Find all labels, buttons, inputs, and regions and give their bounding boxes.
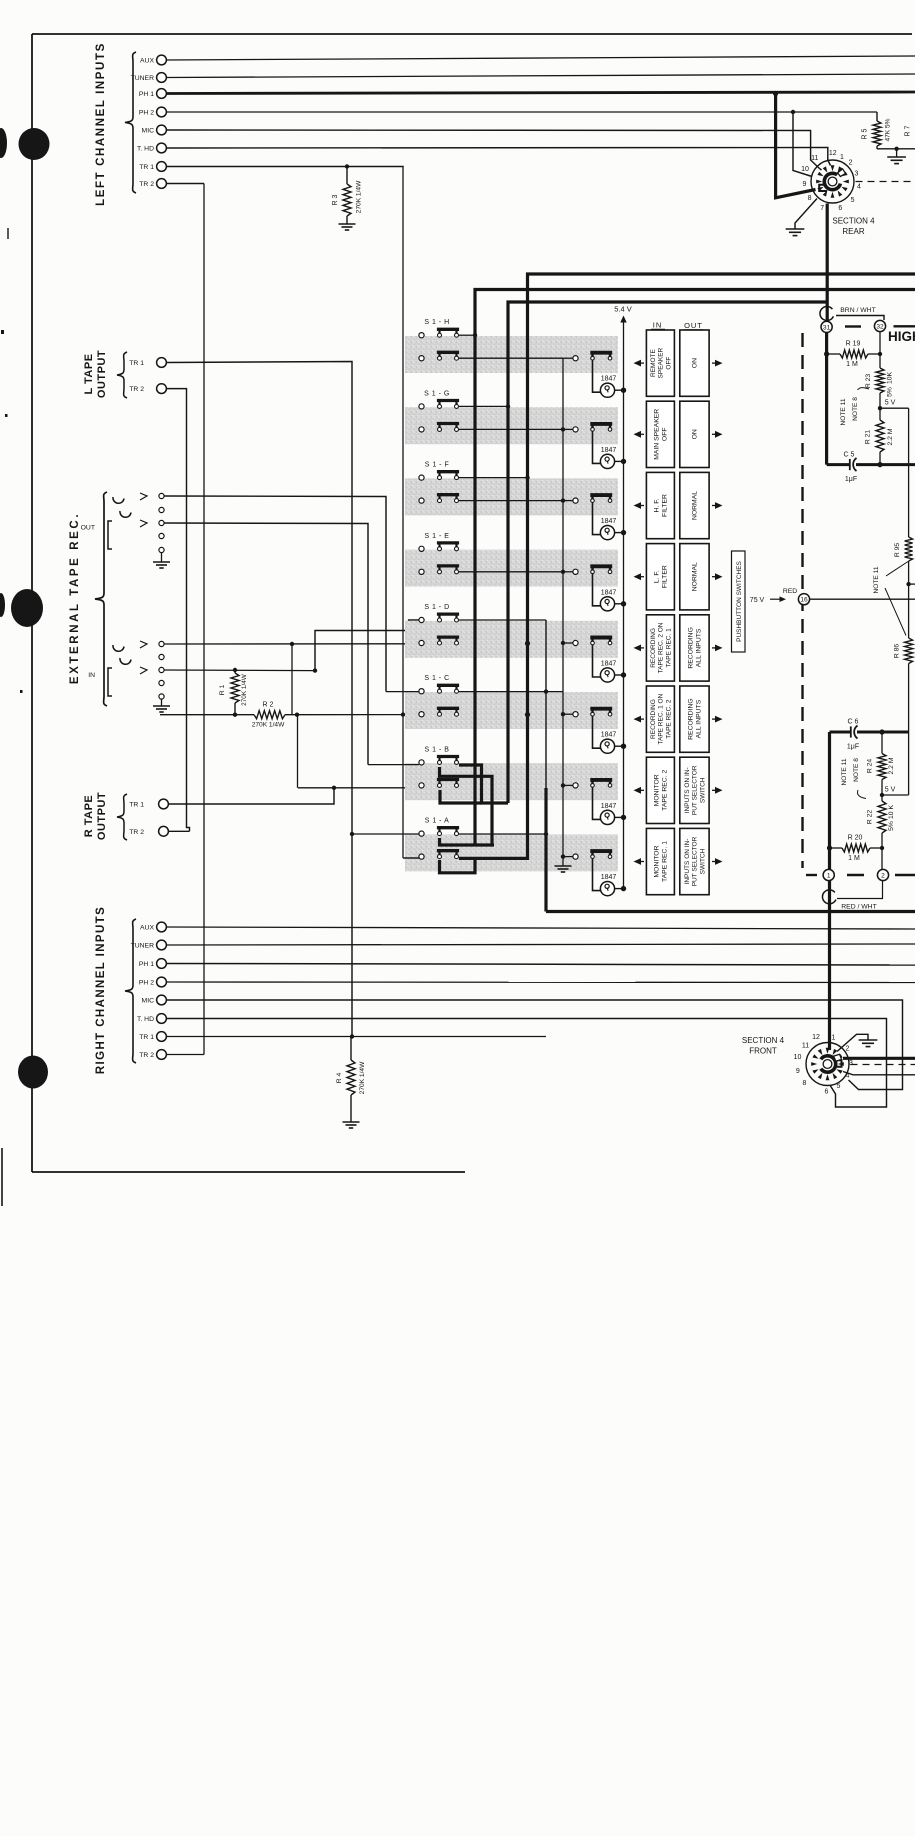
svg-text:8: 8: [808, 195, 812, 202]
switch S1-G lower contact: [419, 427, 424, 432]
svg-text:5%: 5%: [888, 821, 895, 831]
svg-text:11: 11: [811, 155, 818, 162]
cable curl 1: [822, 890, 835, 904]
resistor R95: [905, 537, 913, 561]
brace left channel inputs: [125, 52, 136, 193]
wire S1-B lower pole link (thick): [440, 790, 482, 803]
svg-text:10K: 10K: [887, 371, 894, 384]
switch S1-D upper contact: [419, 617, 424, 622]
svg-text:2.2 M: 2.2 M: [888, 757, 895, 774]
switch S1-B lower contact: [419, 783, 424, 788]
page edge marks: [1, 1148, 3, 1206]
ground R4: [343, 1121, 360, 1123]
svg-text:PH 1: PH 1: [139, 961, 154, 968]
wire right MIC: [166, 1000, 902, 1090]
ground OUT jack: [153, 561, 170, 563]
lamp DS-H 1847: [593, 360, 602, 392]
svg-text:TR 1: TR 1: [129, 802, 144, 809]
switch S1-A lower pole: [438, 855, 442, 859]
stipple band S1-C: [405, 692, 618, 729]
svg-text:EXTERNAL TAPE REC.: EXTERNAL TAPE REC.: [69, 512, 81, 684]
dashed link right of 32: [894, 325, 915, 327]
resistor R22 10K 5%: [878, 801, 886, 833]
switch S1-D lower pole: [438, 641, 442, 645]
box label PUSHBUTTON SWITCHES: [732, 551, 746, 652]
arrow out S1-C: [715, 716, 723, 723]
svg-text:ALL INPUTS: ALL INPUTS: [696, 628, 703, 667]
switch S1-A lower contact: [419, 854, 424, 859]
wire IN contact 3 (R1 feed): [164, 669, 315, 672]
wire left TUNER: [166, 74, 915, 78]
box IN function S1-B: [646, 757, 674, 823]
rotary switch SECTION 4 FRONT: [806, 1043, 849, 1086]
dashed cable boundary vertical: [801, 333, 803, 868]
svg-text:2: 2: [846, 1046, 850, 1053]
jack OUT body: [108, 521, 112, 549]
svg-text:L. F.: L. F.: [654, 570, 661, 583]
wire right T.HD: [166, 1019, 886, 1108]
rotor SECTION 4 REAR: [824, 173, 840, 189]
junction L-tape-TR1 / S1-A upper feed: [350, 832, 354, 836]
svg-text:OUT: OUT: [81, 525, 95, 532]
wire 5V lower to right rail: [882, 794, 909, 796]
box OUT function S1-H: [680, 330, 709, 396]
junction lamp bus S1-B: [621, 815, 626, 820]
svg-text:SECTION 4: SECTION 4: [832, 217, 875, 226]
svg-text:31: 31: [823, 324, 831, 331]
svg-text:S 1 - A: S 1 - A: [425, 818, 450, 825]
svg-text:R 23: R 23: [865, 374, 872, 389]
stipple band S1-H: [405, 336, 618, 373]
dashed link right of 2: [895, 874, 915, 876]
svg-text:TR 2: TR 2: [139, 1052, 154, 1059]
svg-text:REMOTE: REMOTE: [650, 349, 657, 377]
wire right rail x=908.6: [908, 408, 910, 537]
lamp switch S1-C pole: [591, 712, 595, 716]
switch S1-G upper contact: [419, 404, 424, 409]
junction R20 right: [880, 846, 884, 850]
wire OUT3 drop to S1-B upper: [368, 764, 419, 766]
junction A upper x546: [544, 832, 548, 836]
junction lamp return S1-A: [561, 854, 565, 858]
svg-text:6: 6: [838, 205, 842, 212]
switch S1-E lower contact: [419, 569, 424, 574]
svg-text:47K 5%: 47K 5%: [885, 118, 892, 141]
switch S1-C lower contact: [419, 712, 424, 717]
switch S1-F upper contact: [419, 475, 424, 480]
resistor R86: [905, 638, 913, 664]
svg-text:R 95: R 95: [894, 543, 901, 558]
junction R19 right: [878, 352, 882, 356]
wire 32 down: [879, 332, 881, 368]
svg-text:1847: 1847: [601, 803, 617, 810]
terminal 16: [798, 594, 809, 605]
lamp switch S1-G contact: [573, 427, 578, 432]
arrow in S1-C: [634, 716, 642, 723]
svg-text:OUTPUT: OUTPUT: [96, 792, 108, 840]
svg-text:IN: IN: [88, 672, 95, 679]
contact OUT jack y=523: [159, 520, 164, 525]
contact IN jack y=670: [159, 667, 164, 672]
svg-text:S 1 - D: S 1 - D: [424, 604, 449, 611]
wire S1-A lower pole U-link (thick): [440, 858, 476, 872]
junction C6/R24: [879, 729, 884, 734]
svg-text:12: 12: [829, 150, 837, 157]
brace L tape output: [117, 352, 127, 398]
junction 670-line end: [313, 668, 317, 672]
wire left TR 1: [166, 166, 403, 169]
lamp switch S1-H contact: [573, 356, 578, 361]
wire S1-A upper row: [352, 833, 419, 835]
switch S1-C lower pole: [438, 712, 442, 716]
wire left TR 2: [166, 183, 204, 185]
svg-text:BRN / WHT: BRN / WHT: [840, 307, 876, 314]
svg-text:RECORDING: RECORDING: [650, 699, 657, 739]
junction 5V lower: [881, 780, 883, 802]
svg-text:ALL INPUTS: ALL INPUTS: [696, 699, 703, 738]
lamp DS-E 1847: [593, 574, 602, 606]
dashed link 31-32: [845, 325, 861, 327]
svg-text:MONITOR: MONITOR: [654, 774, 661, 806]
svg-text:1: 1: [840, 154, 844, 161]
wire 5V to right rail: [880, 407, 909, 409]
wire TR2 vertical trunk x=204: [203, 184, 205, 1055]
wire pin 8 to ground: [795, 199, 817, 230]
svg-text:TAPE REC. 1: TAPE REC. 1: [665, 628, 672, 668]
resistor R3 270K 1/4W: [346, 167, 348, 185]
junction R4 top: [350, 1034, 354, 1038]
wire lower row S1-E: [459, 571, 563, 573]
resistor R4 270K 1/4W: [350, 1037, 352, 1061]
resistor R1 270K 1/4W: [234, 670, 236, 673]
switch S1-F lower pole: [438, 499, 442, 503]
junction right rail tap: [908, 561, 910, 638]
box IN function S1-E: [646, 544, 674, 610]
contact OUT jack y=496: [159, 493, 164, 498]
wire S1-D upper row to x546: [459, 619, 546, 621]
page border left: [31, 34, 33, 1172]
switch S1-H lower pole: [438, 356, 442, 360]
arrow out S1-F: [715, 502, 723, 509]
box OUT function S1-D: [680, 615, 709, 681]
junction PH2 feed: [791, 110, 795, 114]
svg-text:1847: 1847: [601, 589, 617, 596]
box OUT function S1-A: [680, 828, 709, 894]
junction R19 left: [824, 351, 829, 356]
svg-text:10: 10: [794, 1054, 802, 1061]
box OUT function S1-B: [680, 757, 709, 823]
wire R5 bottom: [877, 148, 897, 150]
lamp switch S1-D pole: [591, 641, 595, 645]
lamp switch S1-B contact: [573, 783, 578, 788]
svg-text:MONITOR: MONITOR: [654, 845, 661, 877]
terminal 32: [874, 320, 885, 331]
wire right TR 1: [166, 1036, 546, 1038]
dashed rotor index rear: [856, 181, 915, 183]
ground rear pin 8: [786, 228, 805, 230]
svg-text:TR 2: TR 2: [129, 829, 144, 836]
junction lamp return S1-F: [561, 498, 565, 502]
lamp switch S1-C contact: [573, 712, 578, 717]
svg-text:OUTPUT: OUTPUT: [96, 350, 108, 398]
switch S1-H lower contact: [419, 356, 424, 361]
arrow in S1-A: [634, 858, 642, 865]
wire IN contact 1 to S1-D lower: [164, 643, 419, 645]
svg-text:NOTE 11: NOTE 11: [873, 566, 880, 593]
switch S1-G upper pole: [438, 404, 442, 408]
switch S1-G lower pole: [438, 427, 442, 431]
svg-text:FILTER: FILTER: [662, 565, 669, 588]
svg-text:2.2 M: 2.2 M: [887, 428, 894, 445]
svg-text:16: 16: [800, 597, 808, 604]
wire IN contact 5 to ground: [161, 699, 163, 706]
terminal 1: [823, 869, 834, 880]
box IN function S1-F: [646, 472, 674, 538]
arrow out S1-A: [715, 858, 723, 865]
wire R tape TR2 stub: [168, 830, 189, 832]
punch hole blob top-left: [19, 128, 50, 160]
brace R tape output: [117, 794, 127, 840]
svg-text:INPUTS ON IN-: INPUTS ON IN-: [684, 839, 691, 885]
wire OUT contact 5 to ground: [161, 553, 163, 562]
stipple band S1-D: [405, 621, 618, 658]
wire trunk2 into S1-B (thick): [459, 765, 508, 803]
junction lamp bus S1-D: [621, 672, 626, 677]
brace external tape rec: [95, 492, 107, 706]
arrow in S1-B: [634, 787, 642, 794]
svg-text:1 M: 1 M: [846, 361, 858, 368]
wire lamp return bus x=563: [562, 358, 564, 866]
svg-text:R 86: R 86: [894, 644, 901, 659]
switch S1-B upper pole: [438, 760, 442, 764]
svg-text:SWITCH: SWITCH: [699, 848, 706, 874]
svg-text:TR 1: TR 1: [129, 360, 144, 367]
svg-text:270K 1/4W: 270K 1/4W: [359, 1061, 366, 1094]
stipple band S1-A: [405, 834, 618, 871]
jack IN body: [108, 668, 112, 696]
svg-text:270K 1/4W: 270K 1/4W: [356, 180, 363, 213]
arrow out S1-H: [715, 360, 723, 367]
svg-text:TAPE REC. 1: TAPE REC. 1: [662, 841, 669, 882]
junction lamp bus S1-G: [621, 459, 626, 464]
arrow in S1-E: [634, 573, 642, 580]
dashed link left of 1: [806, 874, 817, 876]
svg-text:NORMAL: NORMAL: [692, 491, 699, 520]
wire OUT contact 1: [164, 496, 386, 692]
lamp DS-F 1847: [593, 502, 602, 534]
lamp switch S1-F pole: [591, 499, 595, 503]
lamp DS-A 1847: [593, 858, 602, 890]
svg-text:TAPE REC. 2: TAPE REC. 2: [662, 770, 669, 811]
svg-text:LEFT CHANNEL INPUTS: LEFT CHANNEL INPUTS: [95, 42, 107, 206]
svg-text:TR 1: TR 1: [139, 164, 154, 171]
svg-text:AUX: AUX: [140, 924, 154, 931]
stipple band S1-B: [405, 763, 618, 800]
wire pin 2 to ground front: [837, 1034, 868, 1051]
svg-text:TUNER: TUNER: [131, 75, 155, 82]
wire link 644-714 at x=292: [291, 644, 293, 715]
svg-text:INPUTS ON IN-: INPUTS ON IN-: [684, 767, 691, 813]
svg-text:7: 7: [820, 205, 824, 212]
svg-text:NOTE 8: NOTE 8: [853, 758, 860, 782]
svg-text:1 M: 1 M: [848, 855, 860, 862]
lamp DS-B 1847: [593, 787, 602, 819]
wire heavy bottom run: [546, 910, 915, 913]
jack OUT hook contacts: [113, 497, 124, 503]
svg-text:9: 9: [803, 181, 807, 188]
svg-text:32: 32: [876, 323, 884, 330]
wire S1-A lower left link: [403, 857, 419, 859]
svg-text:R 22: R 22: [867, 810, 874, 825]
resistor R20 1M: [830, 847, 843, 849]
wire left PH 2: [166, 111, 877, 113]
svg-text:TR 2: TR 2: [139, 181, 154, 188]
junction PH1 feed: [773, 91, 778, 96]
junction R20 left: [827, 845, 832, 850]
svg-text:TAPE REC. 1 ON: TAPE REC. 1 ON: [658, 693, 665, 744]
wire lower row S1-H: [459, 357, 563, 359]
wire thick trunk 1 (x=475): [475, 290, 915, 846]
svg-text:S 1 - H: S 1 - H: [424, 319, 449, 326]
cable curl 31: [820, 307, 833, 321]
wire B lower row: [298, 787, 419, 789]
svg-text:S 1 - E: S 1 - E: [425, 533, 450, 540]
wire right TUNER: [166, 944, 915, 945]
junction node TR1/R3: [345, 164, 349, 168]
resistor R24 2.2M: [881, 732, 883, 754]
wire PH1 feed to rotor (thick): [776, 94, 816, 198]
arrow in S1-F: [634, 502, 642, 509]
svg-text:L TAPE: L TAPE: [83, 353, 95, 394]
ground lamp return: [555, 865, 572, 867]
switch S1-H upper contact: [419, 333, 424, 338]
wire x546 vertical: [545, 620, 547, 788]
lamp switch S1-A contact: [573, 854, 578, 859]
svg-text:10 K: 10 K: [888, 805, 895, 819]
wire rotor out (thick): [843, 1057, 915, 1060]
svg-text:1847: 1847: [601, 447, 617, 454]
lamp switch S1-H pole: [591, 356, 595, 360]
terminal 2: [877, 869, 888, 880]
svg-text:R 7: R 7: [905, 125, 912, 136]
svg-text:PUSHBUTTON SWITCHES: PUSHBUTTON SWITCHES: [736, 560, 743, 641]
junction trunk3 / S1-C lower: [525, 712, 530, 717]
svg-text:MIC: MIC: [142, 997, 155, 1004]
wire 5.4V lamp bus: [620, 316, 626, 323]
svg-text:PH 2: PH 2: [139, 109, 154, 116]
svg-text:R TAPE: R TAPE: [83, 795, 95, 838]
wire thick trunk 3 (x=527.5): [528, 274, 915, 715]
ground IN jack: [153, 705, 170, 707]
wire pin 7 down to terminal 31 (thick): [826, 204, 829, 322]
svg-text:S 1 - G: S 1 - G: [424, 390, 450, 397]
svg-text:2: 2: [881, 872, 885, 879]
wire right PH 1: [166, 964, 915, 966]
brace right channel inputs: [125, 919, 136, 1063]
wire S1-F upper row to trunk3: [459, 477, 528, 479]
junction TR1 trunk / S1-C lower: [401, 712, 405, 716]
svg-text:1847: 1847: [601, 874, 617, 881]
wire trunk x=528 into S1-A lower (thick): [459, 715, 528, 859]
svg-text:5: 5: [851, 197, 855, 204]
punch hole blob bottom-left: [18, 1056, 48, 1089]
arrow in S1-D: [634, 645, 642, 652]
wire L tape TR2: [166, 389, 189, 832]
svg-text:1μF: 1μF: [847, 744, 859, 751]
arrow in S1-H: [634, 360, 642, 367]
arrow out S1-G: [715, 431, 723, 438]
svg-text:T. HD: T. HD: [137, 1016, 154, 1023]
svg-text:5 V: 5 V: [885, 787, 896, 794]
svg-text:ON: ON: [692, 429, 699, 439]
contact OUT jack y=536: [159, 533, 164, 538]
wire right PH 2: [166, 981, 915, 984]
svg-text:TR 2: TR 2: [129, 386, 144, 393]
svg-text:R 5: R 5: [862, 128, 869, 139]
svg-text:1847: 1847: [601, 376, 617, 383]
switch S1-H upper pole: [438, 333, 442, 337]
resistor R2 270K 1/4W: [254, 711, 285, 719]
junction R5 ground node: [894, 147, 898, 151]
svg-text:S 1 - F: S 1 - F: [425, 462, 450, 469]
svg-text:270K 1/4W: 270K 1/4W: [252, 722, 285, 729]
switch S1-E lower pole: [438, 570, 442, 574]
switch S1-A upper pole: [438, 832, 442, 836]
wire 31 down (thick): [825, 333, 828, 465]
contact OUT jack y=510: [159, 507, 164, 512]
junction R1 top: [233, 668, 237, 672]
contact IN jack y=696.5: [159, 694, 164, 699]
svg-text:RED / WHT: RED / WHT: [841, 904, 877, 911]
wire terminal1 up (thick): [828, 732, 831, 869]
box OUT function S1-F: [680, 472, 709, 538]
svg-text:5: 5: [837, 1083, 841, 1090]
wire MIC feed to pin 11 (segment): [820, 169, 822, 171]
rotor SECTION 4 FRONT: [821, 1056, 836, 1072]
svg-text:C 5: C 5: [844, 452, 855, 459]
svg-text:RECORDING: RECORDING: [650, 628, 657, 668]
contact IN jack y=657: [159, 654, 164, 659]
wire R tape TR1: [168, 788, 334, 804]
svg-text:RIGHT CHANNEL INPUTS: RIGHT CHANNEL INPUTS: [95, 906, 107, 1074]
arrow out S1-B: [715, 787, 723, 794]
wire 75V run: [810, 598, 915, 600]
switch S1-E upper contact: [419, 546, 424, 551]
rotary switch SECTION 4 REAR: [811, 160, 854, 203]
wire terminal 1 down (thick): [828, 881, 831, 1050]
wire lower row S1-F: [459, 500, 563, 502]
svg-text:9: 9: [796, 1068, 800, 1075]
wire R2 right: [285, 714, 403, 716]
lamp switch S1-E pole: [591, 570, 595, 574]
svg-text:HIGH: HIGH: [888, 329, 915, 344]
svg-text:R 1: R 1: [219, 684, 226, 695]
svg-text:1847: 1847: [601, 661, 617, 668]
box OUT function S1-G: [680, 401, 709, 467]
lamp switch S1-G pole: [591, 428, 595, 432]
box IN function S1-A: [646, 828, 674, 894]
svg-text:R 2: R 2: [263, 702, 274, 709]
contact OUT jack y=550: [159, 547, 164, 552]
terminal 31: [821, 321, 832, 332]
svg-text:10: 10: [801, 166, 809, 173]
lamp switch S1-F contact: [573, 498, 578, 503]
wire L tape TR1: [166, 362, 352, 1037]
svg-text:R 21: R 21: [865, 430, 872, 445]
junction lamp bus S1-F: [621, 530, 626, 535]
junction lamp return S1-B: [561, 783, 565, 787]
wire TR1 vertical trunk x=403: [402, 167, 404, 859]
